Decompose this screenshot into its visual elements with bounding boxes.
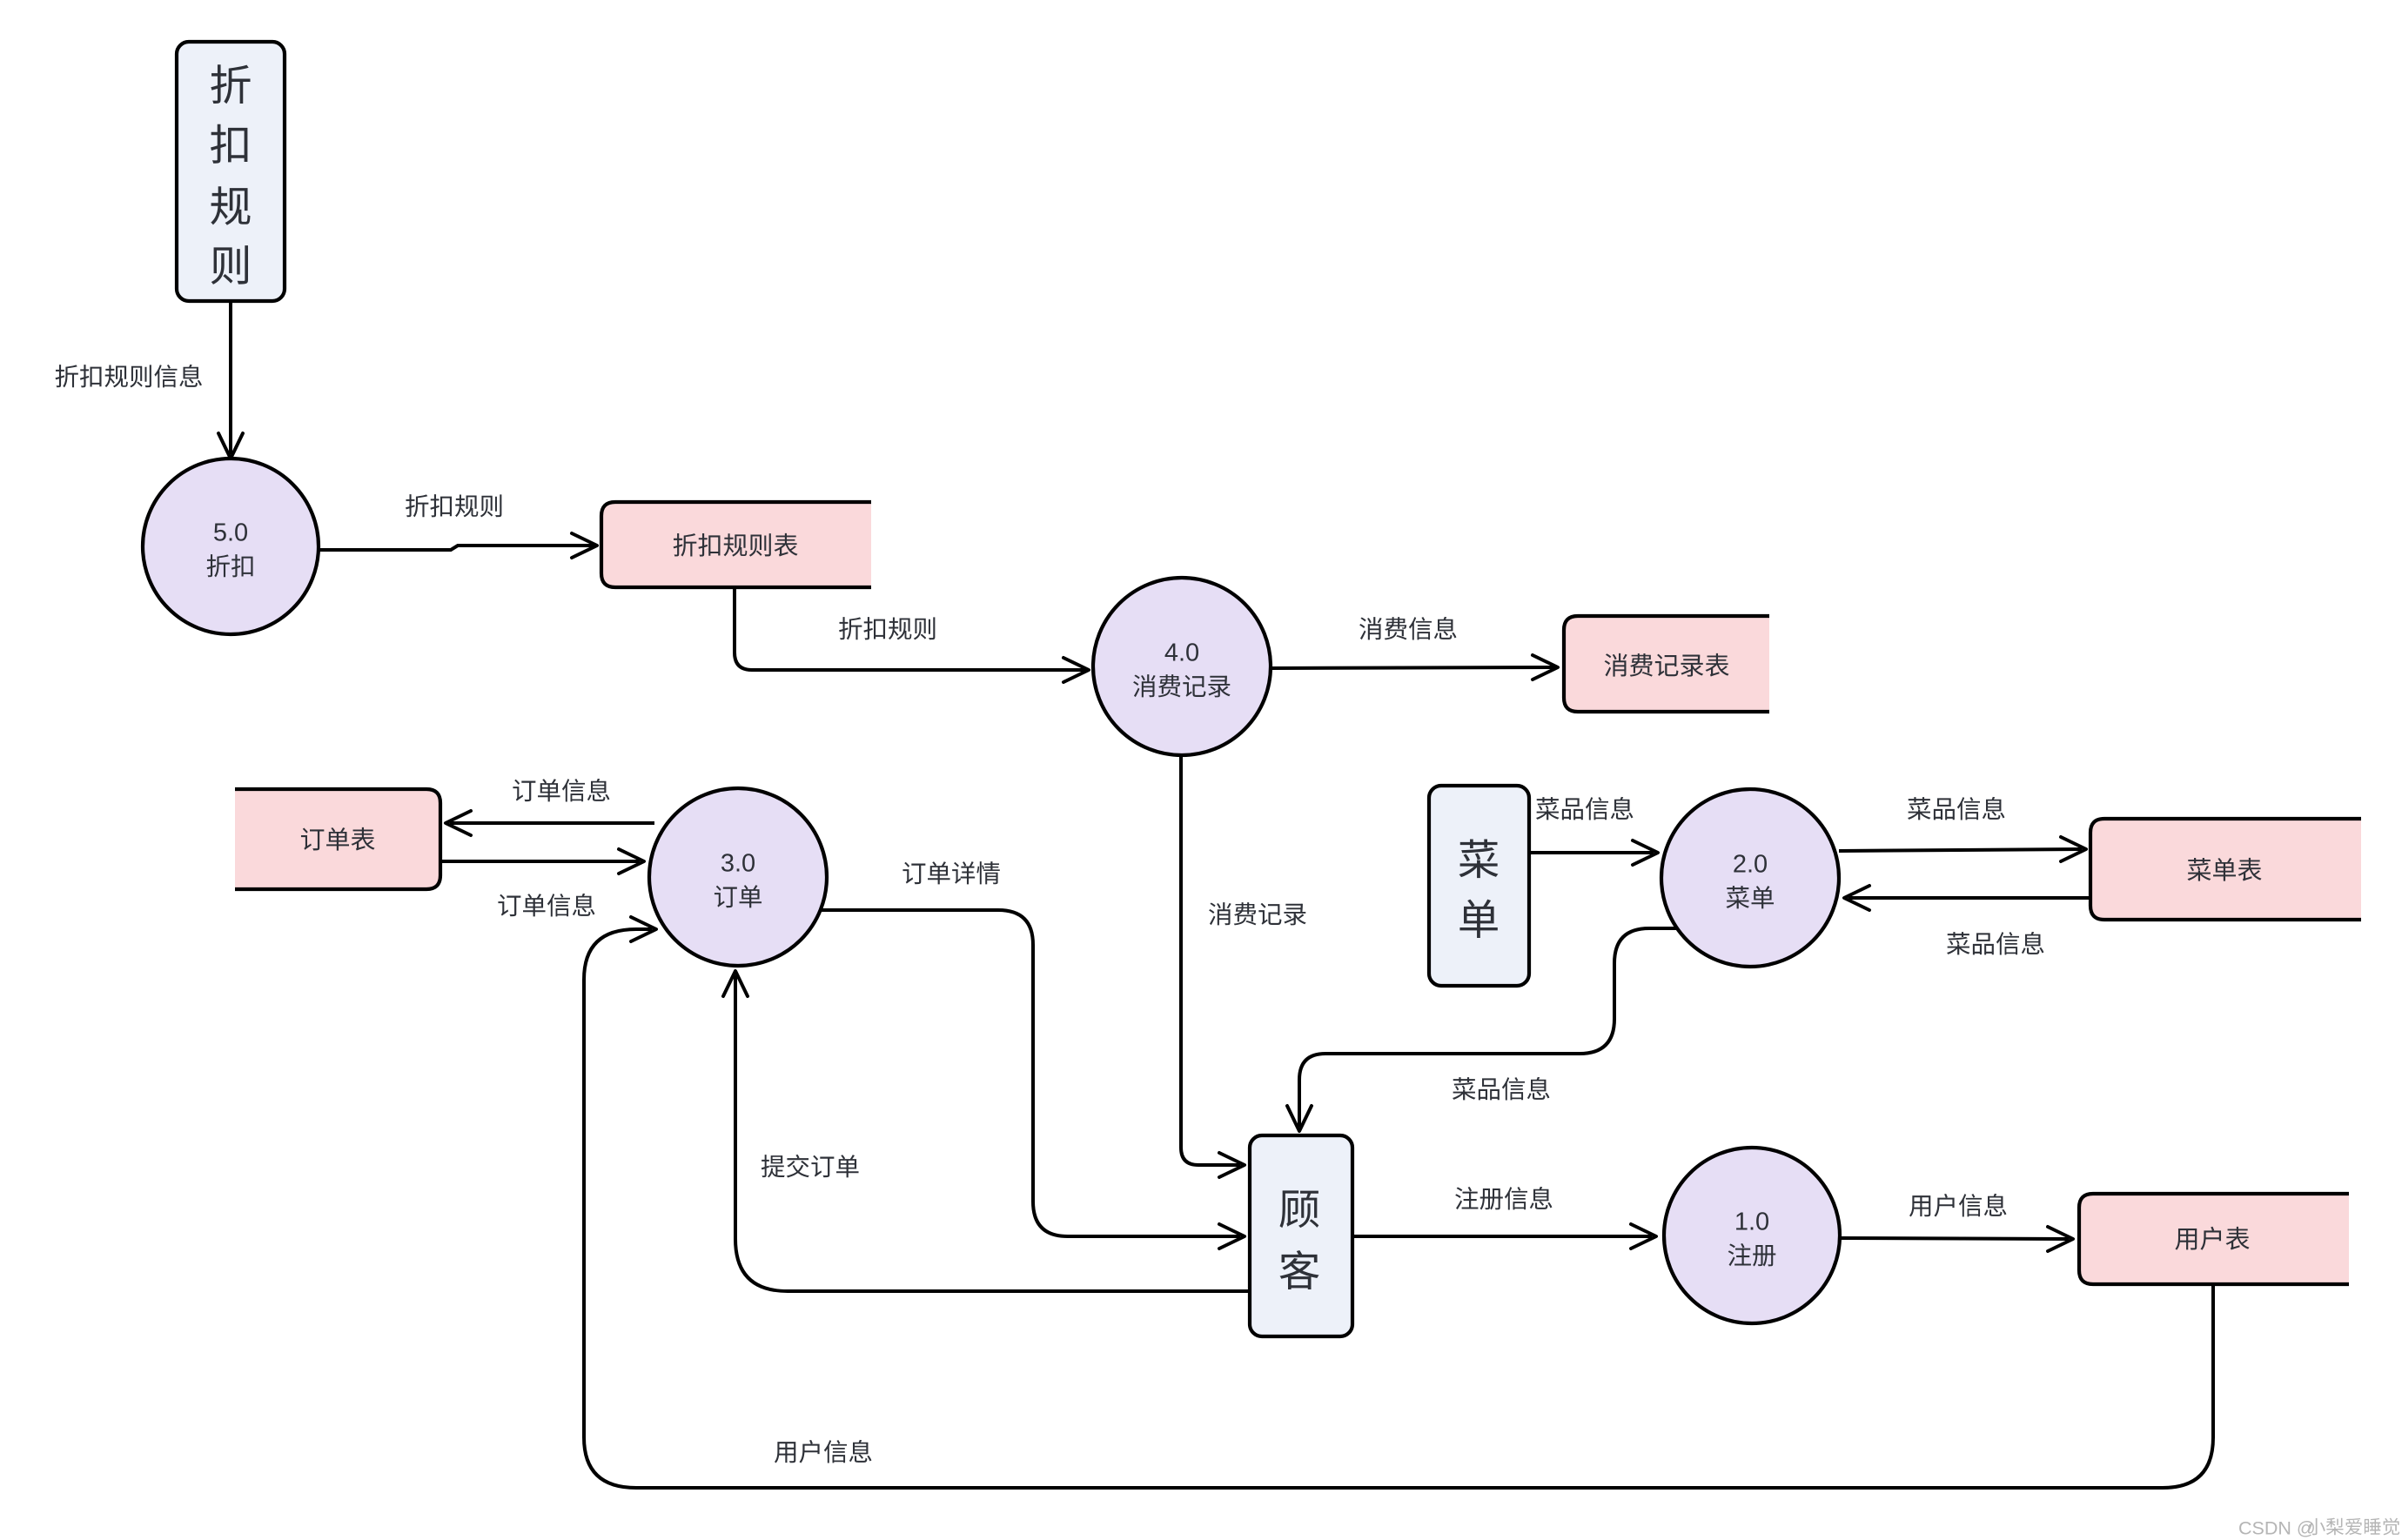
process 2.0 菜单 — [1661, 789, 1839, 967]
wire 5.0 to 折扣规则表 (折扣规则) — [319, 533, 597, 558]
external entity 顾客 (customer) — [1250, 1135, 1352, 1336]
data store 用户表 — [2079, 1194, 2349, 1284]
wire 3.0 to 顾客 (订单详情) — [821, 910, 1245, 1249]
process 1.0 注册 — [1664, 1148, 1840, 1323]
wire 用户表 to 3.0 (用户信息 long path) — [584, 917, 2213, 1488]
svg-text:3.0: 3.0 — [721, 849, 755, 877]
data store 订单表 — [235, 789, 440, 889]
wire 折扣规则表 to 4.0 (折扣规则) — [735, 589, 1089, 682]
label 注册信息 — [1455, 1187, 1552, 1210]
wire 菜单表 to 2.0 (菜品信息 return) — [1844, 886, 2090, 910]
label 菜品信息 (2.0 to 顾客) — [1453, 1077, 1549, 1101]
wire 2.0 to 顾客 (菜品信息) — [1287, 928, 1678, 1131]
label 用户信息 (1.0 to 用户表) — [1909, 1194, 2007, 1217]
wire 顾客 to 1.0 (注册信息) — [1354, 1224, 1656, 1249]
label 菜品信息 (菜单 to 2.0) — [1536, 797, 1633, 820]
process 5.0 折扣 — [143, 459, 319, 634]
svg-text:1.0: 1.0 — [1734, 1208, 1769, 1235]
data store 菜单表 — [2090, 819, 2361, 920]
wire 2.0 to 菜单表 (菜品信息) — [1839, 837, 2086, 861]
wire 折扣规则 to 5.0 (折扣规则信息) — [218, 301, 243, 459]
label 折扣规则信息 — [56, 365, 202, 388]
wire 1.0 to 用户表 (用户信息) — [1841, 1227, 2073, 1251]
external entity 折扣规则 (discount rules source) — [177, 42, 285, 301]
external entity 菜单 (menu source) — [1429, 786, 1529, 986]
wire 订单表 to 3.0 (订单信息 read) — [440, 849, 644, 874]
svg-text:4.0: 4.0 — [1164, 639, 1199, 666]
wire 顾客 to 3.0 (提交订单) — [723, 971, 1250, 1291]
label 菜品信息 (2.0 to 菜单表) — [1908, 797, 2004, 820]
data store 折扣规则表 — [601, 502, 871, 587]
label 消费信息 — [1359, 617, 1456, 640]
svg-text:2.0: 2.0 — [1733, 850, 1768, 878]
label 折扣规则 (5.0 to store) — [406, 494, 501, 517]
svg-text:CSDN @: CSDN @ — [2238, 1518, 2316, 1539]
label 提交订单 — [762, 1155, 859, 1178]
label 订单详情 — [902, 861, 999, 884]
wire 菜单 to 2.0 (菜品信息) — [1529, 840, 1658, 865]
label 订单信息 (lower) — [498, 894, 594, 917]
label 订单信息 (upper) — [513, 779, 609, 802]
process 3.0 订单 — [649, 788, 827, 966]
svg-text:5.0: 5.0 — [213, 519, 248, 546]
label 折扣规则 (store to 4.0) — [839, 617, 935, 639]
wire 4.0 to 消费记录表 (消费信息) — [1271, 655, 1558, 680]
data store 消费记录表 — [1564, 616, 1769, 712]
wire 4.0 to 顾客 (消费记录) — [1181, 755, 1245, 1177]
process 4.0 消费记录 — [1093, 578, 1271, 755]
label 消费记录 — [1209, 902, 1306, 925]
watermark CSDN @小梨爱睡觉 — [2238, 1518, 2399, 1539]
wire 3.0 to 订单表 (订单信息 write) — [446, 811, 654, 835]
label 用户信息 (bottom) — [775, 1440, 872, 1463]
label 菜品信息 (菜单表 to 2.0) — [1947, 932, 2043, 955]
